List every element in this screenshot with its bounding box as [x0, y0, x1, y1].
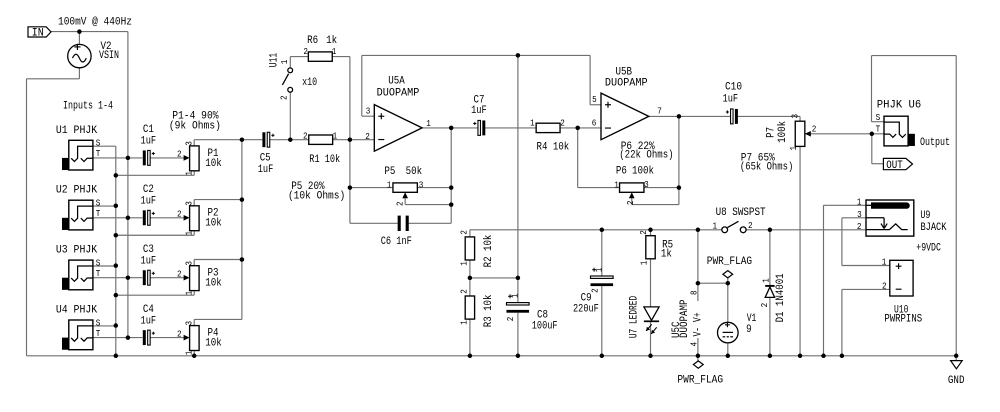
svg-text:1uF: 1uF [141, 136, 157, 148]
svg-text:U5A: U5A [388, 75, 405, 87]
svg-text:PHJK U6: PHJK U6 [877, 100, 921, 112]
svg-text:2: 2 [638, 230, 649, 235]
svg-text:OUT: OUT [886, 160, 903, 172]
svg-text:C10: C10 [725, 82, 742, 94]
svg-text:1uF: 1uF [141, 315, 157, 327]
svg-text:1: 1 [183, 171, 194, 176]
svg-text:1: 1 [509, 293, 520, 298]
svg-text:2: 2 [857, 221, 862, 232]
svg-text:P7: P7 [765, 127, 777, 138]
svg-text:(65k Ohms): (65k Ohms) [740, 161, 793, 173]
svg-text:U9: U9 [920, 210, 930, 222]
svg-text:U7 LEDRED: U7 LEDRED [629, 296, 641, 339]
svg-text:1uF: 1uF [141, 196, 157, 208]
svg-text:GND: GND [948, 375, 965, 387]
svg-text:U3 PHJK: U3 PHJK [56, 245, 98, 257]
svg-text:C3: C3 [143, 244, 154, 256]
svg-text:R1 10k: R1 10k [309, 154, 340, 166]
svg-text:R4 10k: R4 10k [537, 142, 570, 154]
svg-text:2: 2 [560, 117, 565, 128]
svg-text:1uF: 1uF [141, 255, 157, 267]
svg-text:1: 1 [882, 256, 887, 267]
svg-text:T: T [96, 268, 101, 279]
svg-text:100uF: 100uF [532, 320, 558, 332]
svg-text:T: T [96, 208, 101, 219]
svg-text:1: 1 [426, 118, 431, 129]
svg-text:1: 1 [333, 130, 338, 141]
svg-text:C5: C5 [260, 152, 271, 164]
svg-text:IN: IN [32, 28, 44, 40]
svg-text:1: 1 [183, 350, 194, 355]
svg-text:1: 1 [761, 278, 772, 283]
svg-text:S: S [96, 138, 101, 149]
svg-text:6: 6 [592, 118, 597, 129]
svg-text:Inputs 1-4: Inputs 1-4 [63, 100, 113, 112]
svg-text:2: 2 [759, 303, 770, 308]
svg-text:P5: P5 [384, 166, 395, 178]
svg-text:1uF: 1uF [258, 164, 274, 176]
svg-text:220uF: 220uF [573, 304, 599, 316]
svg-text:S: S [876, 112, 881, 123]
svg-text:1k: 1k [661, 249, 672, 261]
svg-text:1: 1 [712, 221, 717, 232]
svg-text:3: 3 [419, 179, 424, 190]
svg-text:1: 1 [183, 231, 194, 236]
svg-text:PWRPINS: PWRPINS [884, 314, 922, 326]
svg-text:1: 1 [459, 320, 470, 325]
svg-text:1uF: 1uF [471, 105, 487, 117]
svg-text:7: 7 [657, 105, 662, 116]
svg-text:2: 2 [303, 130, 308, 141]
svg-text:100k: 100k [777, 121, 789, 143]
svg-text:5: 5 [592, 94, 597, 105]
svg-text:(22k Ohms): (22k Ohms) [619, 149, 673, 161]
svg-text:3: 3 [790, 114, 801, 119]
svg-text:P6: P6 [616, 166, 627, 178]
svg-text:3: 3 [183, 261, 194, 266]
svg-text:VSIN: VSIN [99, 50, 119, 62]
svg-text:100k: 100k [632, 166, 654, 178]
svg-text:V- V+: V- V+ [692, 312, 704, 336]
svg-text:D1 1N4001: D1 1N4001 [775, 273, 787, 322]
svg-text:DUOPAMP: DUOPAMP [377, 87, 420, 99]
svg-text:2: 2 [177, 328, 182, 339]
svg-text:C2: C2 [143, 184, 154, 196]
svg-text:1uF: 1uF [723, 94, 739, 106]
svg-text:T: T [96, 148, 101, 159]
svg-text:50k: 50k [406, 166, 423, 178]
svg-text:2: 2 [279, 95, 290, 100]
svg-text:U1 PHJK: U1 PHJK [56, 125, 98, 137]
svg-text:2: 2 [748, 220, 753, 231]
svg-text:2: 2 [365, 131, 370, 142]
svg-text:C4: C4 [143, 304, 154, 316]
svg-text:1: 1 [332, 46, 337, 57]
svg-text:100mV @ 440Hz: 100mV @ 440Hz [58, 16, 132, 28]
svg-text:+9VDC: +9VDC [916, 243, 941, 255]
svg-text:R3 10k: R3 10k [483, 294, 495, 327]
svg-text:3: 3 [183, 141, 194, 146]
svg-text:DUOPAMP: DUOPAMP [605, 78, 648, 90]
svg-text:2: 2 [177, 268, 182, 279]
svg-text:S: S [96, 257, 101, 268]
svg-text:x10: x10 [302, 77, 317, 89]
svg-text:3: 3 [366, 105, 371, 116]
svg-text:U4 PHJK: U4 PHJK [56, 305, 98, 317]
svg-text:2: 2 [589, 288, 600, 293]
svg-text:1: 1 [387, 179, 392, 190]
svg-text:1: 1 [183, 290, 194, 295]
svg-text:C6 1nF: C6 1nF [381, 236, 412, 248]
svg-text:1: 1 [788, 146, 799, 151]
svg-text:2: 2 [625, 201, 636, 206]
svg-text:2: 2 [505, 317, 516, 322]
svg-text:1: 1 [857, 197, 862, 208]
svg-text:3: 3 [183, 201, 194, 206]
svg-text:9: 9 [746, 324, 752, 336]
svg-text:2: 2 [458, 230, 469, 235]
svg-text:1: 1 [279, 59, 290, 64]
svg-text:T: T [96, 328, 101, 339]
svg-text:(10k Ohms): (10k Ohms) [288, 190, 345, 202]
svg-text:2: 2 [303, 46, 308, 57]
svg-text:2: 2 [812, 124, 817, 135]
svg-text:4: 4 [688, 342, 699, 347]
svg-text:2: 2 [394, 201, 405, 206]
svg-text:PWR_FLAG: PWR_FLAG [707, 256, 752, 268]
svg-text:3: 3 [183, 321, 194, 326]
svg-text:1: 1 [593, 267, 604, 272]
svg-text:PWR_FLAG: PWR_FLAG [677, 375, 723, 387]
svg-text:2: 2 [458, 289, 469, 294]
svg-text:BJACK: BJACK [920, 222, 946, 234]
svg-text:1: 1 [459, 261, 470, 266]
svg-text:3: 3 [644, 179, 649, 190]
svg-text:U2 PHJK: U2 PHJK [56, 185, 98, 197]
svg-text:2: 2 [882, 281, 887, 292]
svg-text:DUOPAMP: DUOPAMP [679, 299, 691, 338]
svg-text:1: 1 [639, 260, 650, 265]
svg-text:10k: 10k [205, 218, 222, 230]
svg-text:Output: Output [920, 137, 950, 149]
svg-text:2: 2 [177, 149, 182, 160]
svg-text:R2 10k: R2 10k [483, 234, 495, 267]
svg-text:T: T [876, 124, 881, 135]
svg-text:10k: 10k [205, 278, 222, 290]
svg-text:S: S [96, 198, 101, 209]
svg-text:8: 8 [688, 290, 699, 295]
svg-text:2: 2 [177, 209, 182, 220]
svg-text:U8 SWSPST: U8 SWSPST [716, 207, 766, 219]
svg-text:C1: C1 [143, 124, 154, 136]
svg-text:R6: R6 [307, 35, 318, 47]
svg-text:1: 1 [530, 117, 535, 128]
svg-text:3: 3 [857, 209, 862, 220]
svg-text:(9k Ohms): (9k Ohms) [169, 121, 221, 133]
svg-text:10k: 10k [205, 338, 222, 350]
svg-text:S: S [96, 317, 101, 328]
svg-text:1: 1 [614, 179, 619, 190]
svg-text:10k: 10k [205, 158, 222, 170]
